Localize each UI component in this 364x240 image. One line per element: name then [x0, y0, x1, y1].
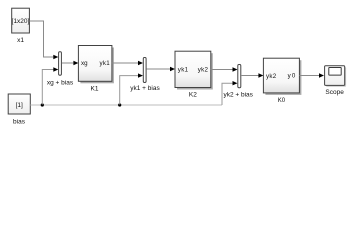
wire K1 to mux2 input1 — [112, 61, 143, 65]
svg-text:yk2: yk2 — [266, 73, 277, 80]
source block x1 — [12, 8, 30, 44]
svg-text:[1]: [1] — [16, 102, 23, 109]
svg-text:yk2: yk2 — [198, 67, 209, 74]
wire mux3 to K0 — [241, 73, 263, 77]
wire mux2 to K2 — [147, 67, 175, 71]
svg-text:yk1: yk1 — [99, 60, 110, 67]
subsystem block K2 — [175, 51, 213, 98]
mux2 — [130, 58, 160, 93]
svg-text:yk1: yk1 — [178, 67, 189, 74]
constant block bias — [8, 94, 30, 125]
scope block Scope — [325, 66, 347, 96]
wire bias end branch to mux3 input2 — [222, 81, 238, 105]
svg-text:K1: K1 — [91, 85, 99, 92]
mux1 — [47, 52, 74, 87]
wire K2 to mux3 input1 — [211, 67, 238, 71]
svg-text:Scope: Scope — [325, 89, 344, 96]
wire bias branch to mux1 input2 — [42, 67, 58, 104]
wire mux1 to K1 — [62, 61, 79, 65]
svg-text:[1x20]: [1x20] — [12, 18, 30, 25]
wire bias branch to mux2 input2 — [120, 73, 143, 104]
svg-text:y0: y0 — [288, 73, 297, 80]
svg-text:x1: x1 — [17, 37, 24, 44]
svg-text:xg + bias: xg + bias — [47, 79, 74, 86]
subsystem block K0 — [263, 58, 301, 104]
svg-text:bias: bias — [13, 118, 26, 125]
subsystem block K1 — [78, 46, 114, 93]
svg-text:xg: xg — [81, 60, 88, 67]
wire bias horizontal run — [30, 103, 222, 106]
svg-text:yk1 + bias: yk1 + bias — [130, 85, 160, 92]
svg-text:yk2 + bias: yk2 + bias — [223, 91, 253, 98]
wire K0 to Scope — [299, 73, 324, 77]
mux3 — [223, 65, 253, 99]
svg-text:K2: K2 — [189, 92, 197, 99]
svg-text:K0: K0 — [278, 98, 286, 104]
wire x1 to mux1 input1 — [29, 21, 58, 59]
